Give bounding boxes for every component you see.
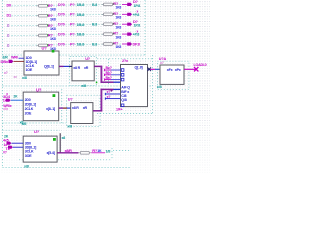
U3 output wire (maroon seg) [63,107,67,109]
svg-text:xR: xR [83,106,88,110]
svg-text:1P.8: 1P.8 [134,4,141,8]
wire row 1 to port [122,3,128,5]
IC U3b body [71,103,93,124]
port arrow row 1 right end [127,3,132,6]
svg-text:WR/: WR/ [11,56,19,60]
svg-text:B.8: B.8 [92,23,97,27]
wire net row 5 (dashed highlight) [12,44,128,45]
svg-text:3OE: 3OE [25,154,32,158]
R7 pin ERC dot [113,13,114,14]
svg-text:x8 R: x8 R [72,106,79,110]
selection box U2b right edge [61,89,63,123]
R4 pin ERC dot [47,34,48,35]
U5 selection dashed box [157,61,189,89]
IC U3 body [23,92,59,121]
svg-text:Q/8: Q/8 [121,98,126,102]
svg-text:x[8..1]: x[8..1] [46,107,55,111]
svg-text:1B.8: 1B.8 [77,12,86,17]
U1 port arrow [9,60,14,63]
bottom row wire right [91,152,105,154]
bus vertical segment B [100,89,102,112]
R3 pin ERC dot [47,24,48,25]
svg-text:1K8: 1K8 [116,25,122,29]
U1 ERC marker (green dot) [52,50,55,53]
bus B to U4 (blue seg) [114,88,121,90]
resistor R11 (bottom) [78,152,91,155]
wire U2 out horizontal [94,65,102,67]
port arrow row 5 right end [127,42,132,45]
svg-text:+P.8: +P.8 [133,13,140,17]
svg-text:D?0: D?0 [58,33,65,37]
x marker on wire [147,67,151,71]
svg-text:x8/R: x8/R [65,149,73,153]
svg-text:DBx: DBx [1,59,9,64]
svg-text:1K8: 1K8 [50,7,56,11]
resistor R8 (right) [102,23,115,26]
U5 output wire [184,68,197,70]
svg-text:1K8: 1K8 [116,45,122,49]
U4 pin sq bottom [121,104,124,107]
svg-text:+P.8: +P.8 [133,33,140,37]
U4 cyan input wire 1 [105,93,120,95]
junction dot on bus B [110,89,112,91]
svg-text:DP.8: DP.8 [133,43,140,47]
U4 input tick 3 [104,78,106,80]
U2 selection dashed box [70,57,97,86]
U1 port wire [14,60,25,62]
svg-text:#?: #? [3,150,7,154]
selection box top-group right edge [144,0,146,55]
U4 pin sq 3 [121,78,124,81]
junction stub [111,89,113,91]
svg-text:1B.8: 1B.8 [77,42,86,47]
resistor R3 (left) [37,24,50,27]
selection box low-group top edge [3,122,67,124]
U4 input wire 1 (magenta seg) [105,69,112,71]
svg-text:x8 R: x8 R [73,66,80,70]
U4 pin sq 2 [121,74,124,77]
selection dashed vertical near U4 [108,59,110,85]
svg-text:x?: x? [107,90,111,94]
svg-text:1K8: 1K8 [116,6,122,10]
svg-text:xR: xR [84,66,89,70]
svg-text:D?0: D?0 [58,13,65,17]
selection box bottom edge [3,167,132,169]
wire row 2 to port [122,13,128,15]
svg-text:x?: x? [160,61,164,65]
svg-text:1K8: 1K8 [116,16,122,20]
U3 ERC marker (green dot) [53,94,56,97]
U4 input wire 1 (blue seg) [111,69,121,71]
svg-text:Bx?: Bx? [106,66,112,70]
wire U1.Q to U2 (navy seg) [69,65,72,67]
R1 pin ERC dot [47,5,48,6]
U6 ERC marker (green dot) [53,138,56,141]
wire row 3 to port [122,23,128,25]
selection box bottom-row right edge [111,148,113,160]
selection box top-group bottom edge [3,54,146,56]
wire net row 1 (dashed highlight) [12,4,128,5]
svg-text:2D0: 2D0 [25,98,31,102]
svg-text:2D[8..1]: 2D[8..1] [25,103,36,107]
U6 output wire [57,152,78,154]
U3 output wire (purple seg) [59,107,63,109]
svg-text:xPx: xPx [175,68,181,72]
U4 input wire 2 (magenta seg) [105,74,112,76]
svg-text:1/F+: 1/F+ [116,107,123,111]
R8 pin ERC dot [113,23,114,24]
svg-text:D?0: D?0 [58,23,65,27]
ERC green tick on bus A [96,82,98,84]
port arrow row 4 right end [127,33,132,36]
svg-text:U?: U? [36,87,42,92]
U4 pin sq 1 [121,69,124,72]
resistor R9 (right) [102,33,115,36]
bus A to U4 (blue seg) [114,81,121,83]
R10 pin ERC dot [113,43,114,44]
svg-text:1K8: 1K8 [50,27,56,31]
resistor R7 (right) [102,13,115,16]
wire U1.Q to U2 (blue seg) [64,65,70,67]
IC U4 body [121,65,148,107]
svg-text:2CLK: 2CLK [25,107,34,111]
bus B to U4 (purple seg) [101,88,114,90]
U4 input wire 3 (magenta seg) [105,79,112,81]
IC U5 body [160,65,184,84]
U1 input wire [19,57,25,59]
svg-text:Q[..8]: Q[..8] [135,66,143,70]
svg-text:1B.8: 1B.8 [77,2,86,7]
output port arrow x [194,67,198,71]
U3b output wire [93,110,102,112]
selection box mid-group right edge [152,55,154,114]
selection box left edge [2,0,4,168]
resistor R2 (left) [37,14,50,17]
U6 port wire b [13,146,23,148]
U4 input wire 3 (blue seg) [111,79,121,81]
svg-text:D?0: D?0 [58,42,65,46]
svg-text:Bx?: Bx? [106,71,112,75]
svg-text:1B.8: 1B.8 [77,32,86,37]
port arrow row 2 right end [127,13,132,16]
svg-text:1B.8: 1B.8 [77,22,86,27]
resistor R5 (left) [37,44,50,47]
svg-text:1/8: 1/8 [106,149,111,153]
IC U6 body [23,136,57,162]
svg-text:xx: xx [14,75,18,79]
U4 cyan input wire 2 [105,98,120,100]
resistor R10 (right) [102,43,115,46]
port arrow row 3 right end [127,23,132,26]
svg-text:1P.8: 1P.8 [134,24,141,28]
svg-text:1K8: 1K8 [116,35,122,39]
svg-text:1K8: 1K8 [50,17,56,21]
svg-text:1K8: 1K8 [50,37,56,41]
wire row 5 to port [122,43,128,45]
U4 input wire 2 (blue seg) [111,74,121,76]
IC U2 body [72,61,94,81]
selection dash right of bottom row [113,150,131,152]
svg-text:x5x: x5x [3,107,8,111]
resistor R4 (left) [37,34,50,37]
R2 pin ERC dot [47,15,48,16]
U3 output wire (blue seg) [67,107,71,109]
bus vertical segment A [100,66,102,83]
U6 port arrow a [7,142,12,145]
R5 pin ERC dot [47,44,48,45]
wire U1.Q to U2 (purple seg) [59,65,64,67]
wire U4 to U5 (blue seg) [155,68,160,70]
IC U1 body [24,51,59,75]
svg-text:xFx: xFx [167,68,173,72]
selection box U4 top edge [97,58,153,60]
wire net row 2 (dashed highlight) [12,14,128,15]
wire net row 3 (dashed highlight) [12,24,128,25]
svg-text:x/8: x/8 [67,125,72,129]
U4 input tick 2 [104,74,106,76]
vertical stub wire [59,133,61,153]
svg-text:U?: U? [34,129,40,134]
svg-text:x?: x? [107,95,111,99]
resistor R6 (right) [102,3,115,6]
R6 pin ERC dot [113,3,114,4]
wire U4 to U5 (blue stub) [148,68,150,70]
svg-text:U?: U? [42,45,48,50]
svg-text:B.8: B.8 [92,42,97,46]
selection box mid-group h line [3,85,153,87]
svg-text:x/8: x/8 [81,84,86,88]
U4 cyan input tick 2 [104,97,106,99]
R9 pin ERC dot [113,33,114,34]
svg-text:Q[8..1]: Q[8..1] [44,64,54,68]
U3 port arrow [6,99,11,102]
U4 cyan input tick 1 [104,93,106,95]
U6 port wire a [12,142,24,144]
wire row 4 to port [122,33,128,35]
svg-text:LOAD/-0: LOAD/-0 [194,63,207,67]
U6 port arrow b [8,146,13,149]
svg-text:1OE: 1OE [26,68,33,72]
svg-text:D?0: D?0 [58,3,65,7]
svg-text:Bx?: Bx? [106,76,112,80]
U4 input tick 1 [104,69,106,71]
wire net row 4 (dashed highlight) [12,34,128,35]
selection box low-group line2 [3,129,61,131]
svg-text:x8: x8 [20,120,24,124]
svg-text:x[5.4]: x[5.4] [47,151,55,155]
resistor R1 (left) [37,5,50,8]
svg-text:D0: D0 [7,3,12,7]
selection box bottom-row lower edge [19,159,112,161]
svg-text:x8: x8 [62,136,66,140]
wire U4 to U5 (magenta seg) [150,68,156,70]
svg-text:x/8: x/8 [24,164,29,168]
svg-text:x/8: x/8 [22,76,27,80]
svg-text:B.8: B.8 [92,3,97,7]
svg-text:x/8: x/8 [157,85,162,89]
selection box mid-group bottom edge [97,113,153,115]
svg-text:x?: x? [4,71,8,75]
U3b selection dashed box [67,95,100,126]
svg-text:2OE: 2OE [25,112,32,116]
U3 port wire [11,99,23,101]
bus A to U4 (purple seg) [101,81,114,83]
svg-text:D1: D1 [7,13,12,17]
